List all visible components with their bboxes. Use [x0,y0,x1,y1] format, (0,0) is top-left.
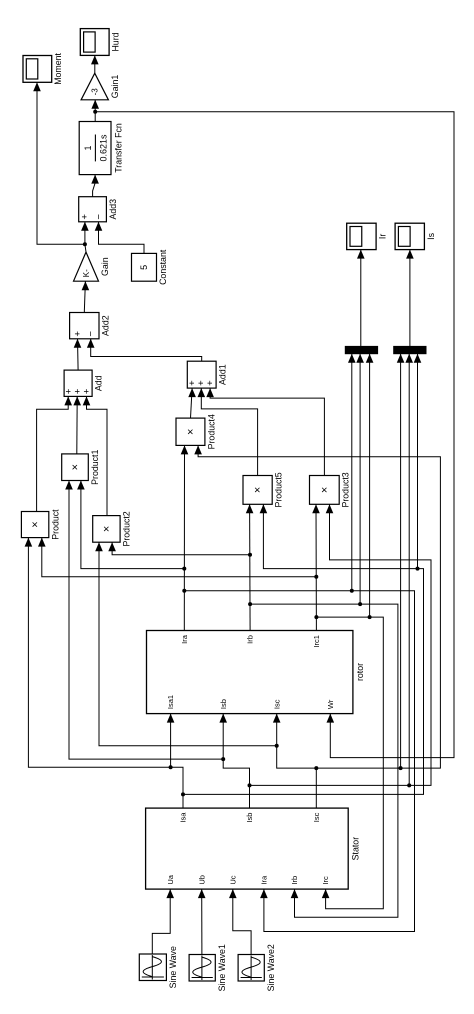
svg-text:+: + [81,388,92,394]
svg-text:Is: Is [426,232,436,239]
svg-text:+: + [205,380,216,386]
svg-text:Isb: Isb [245,813,254,823]
svg-text:Isc: Isc [312,812,321,822]
svg-text:Add2: Add2 [101,315,111,336]
svg-text:Moment: Moment [53,52,63,84]
svg-text:Ira: Ira [180,634,189,644]
svg-text:−: − [85,331,96,337]
svg-text:Product1: Product1 [90,449,100,484]
svg-text:Ir: Ir [378,234,388,239]
svg-text:Hurd: Hurd [111,32,121,51]
svg-text:Add3: Add3 [108,199,118,220]
svg-text:×: × [30,521,42,527]
svg-text:Isb: Isb [219,699,228,709]
svg-text:K-: K- [82,269,91,277]
svg-text:Ua: Ua [166,874,175,884]
svg-text:Transfer Fcn: Transfer Fcn [113,123,123,173]
svg-text:×: × [252,487,264,493]
svg-text:Irb: Irb [246,635,255,644]
svg-text:Wr: Wr [326,699,335,709]
svg-text:Isa1: Isa1 [166,695,175,709]
svg-text:Add: Add [94,375,104,391]
svg-text:Uc: Uc [228,875,237,884]
svg-text:Product4: Product4 [206,414,216,449]
svg-text:Isc: Isc [272,699,281,709]
svg-text:0.621s: 0.621s [98,134,108,162]
svg-text:Irc1: Irc1 [312,635,321,648]
svg-text:Sine Wave2: Sine Wave2 [266,944,276,991]
svg-text:+: + [72,331,83,337]
svg-text:×: × [319,487,331,493]
svg-text:-3: -3 [91,88,100,96]
svg-text:Ira: Ira [260,875,269,885]
svg-text:Isa: Isa [179,812,188,823]
svg-text:×: × [101,526,113,532]
svg-text:Constant: Constant [158,249,168,285]
svg-text:−: − [93,214,104,220]
svg-text:Stator: Stator [350,837,360,861]
svg-text:1: 1 [83,145,93,150]
svg-text:Gain1: Gain1 [110,75,120,99]
svg-text:Irb: Irb [290,876,299,885]
svg-text:Gain: Gain [100,257,110,276]
svg-text:5: 5 [139,265,149,270]
svg-text:Sine Wave: Sine Wave [168,946,178,988]
svg-text:Add1: Add1 [218,364,228,385]
svg-text:×: × [70,464,82,470]
svg-text:Ub: Ub [197,875,206,885]
svg-text:Product: Product [50,509,60,540]
svg-text:×: × [185,429,197,435]
svg-text:Irc: Irc [321,876,330,885]
svg-text:Product3: Product3 [341,472,351,507]
svg-text:+: + [80,214,91,220]
svg-text:Product2: Product2 [122,511,132,546]
svg-text:rotor: rotor [355,663,365,681]
svg-text:Sine Wave1: Sine Wave1 [217,944,227,991]
svg-text:Product5: Product5 [274,472,284,507]
